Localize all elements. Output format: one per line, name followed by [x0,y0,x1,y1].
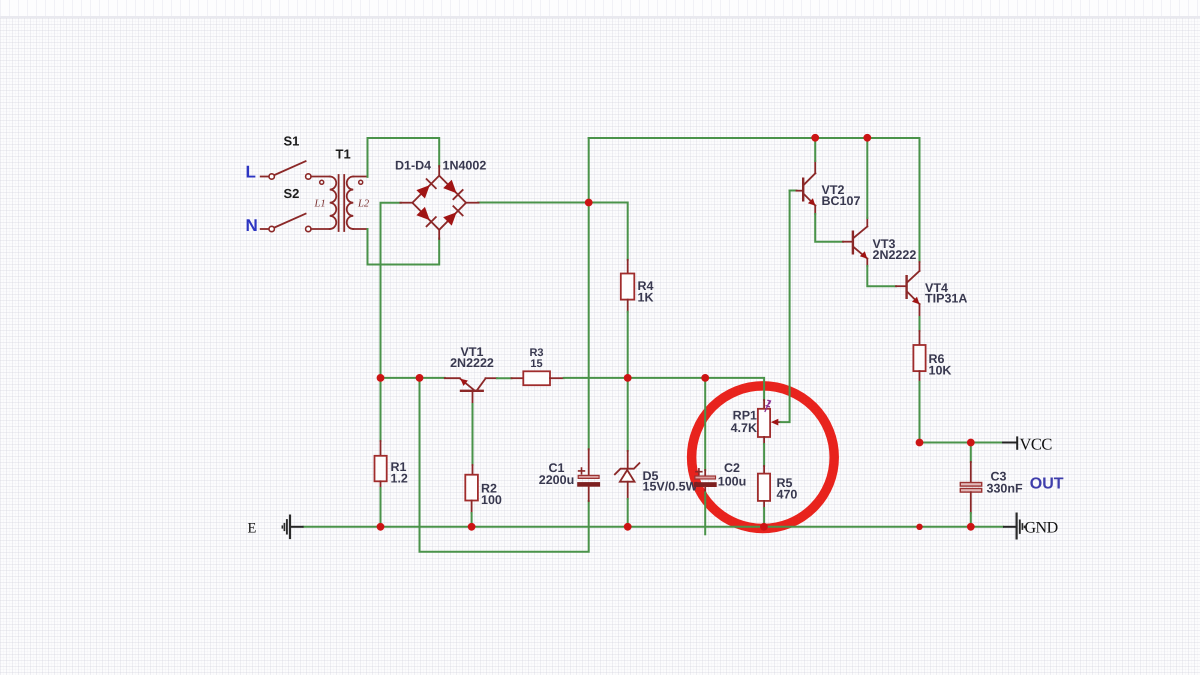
junction R4/D5 [624,374,632,382]
svg-text:330nF: 330nF [987,482,1023,496]
capacitor C2 [694,378,717,534]
svg-text:S1: S1 [284,133,300,148]
svg-text:TIP31A: TIP31A [925,292,967,306]
svg-text:1K: 1K [638,291,654,305]
svg-text:N: N [246,216,258,235]
svg-text:L: L [246,163,256,182]
junction VT3 collector [863,134,871,142]
svg-text:15: 15 [530,358,542,370]
wire RP1 wiper to VT2 base column [781,191,790,423]
junction bridge output [585,199,593,207]
svg-text:D1-D4: D1-D4 [395,159,431,173]
wire secondary bottom loop to bridge bottom [368,229,440,265]
zener diode D5 [615,378,640,527]
diode D3 (upper-right, T to R) [443,179,463,199]
junction R1 bottom [377,523,385,531]
junction C3 bottom [967,523,975,531]
wire bridge left vertex down to node row [381,203,401,378]
wire VT3 collector up [866,138,868,218]
junction C3 top [967,439,975,447]
resistor R3 [512,371,564,385]
svg-text:470: 470 [777,488,798,502]
bridge rectifier D1-D4 [400,166,478,239]
svg-text:L1: L1 [314,199,326,210]
switch S1 [261,161,330,179]
svg-text:10K: 10K [929,364,952,378]
wire loop down to C1 bottom [420,378,589,552]
svg-text:T1: T1 [336,146,351,161]
wire top rail from C1 rail to VT4 collector [589,138,920,262]
node row wire right [564,378,764,400]
diode D4 (lower-right, B to R) [443,206,463,226]
resistor R1 [375,378,387,527]
wire C1 rail vertical [588,138,590,449]
svg-text:2N2222: 2N2222 [450,356,494,370]
svg-text:L2: L2 [357,199,370,210]
VCC pin tick [1016,436,1018,449]
resistor R4 [621,260,635,312]
junction R1 top [377,374,385,382]
svg-text:2N2222: 2N2222 [873,248,917,262]
transistor VT1 [445,378,497,404]
svg-text:4.7K: 4.7K [731,421,757,435]
svg-text:100: 100 [481,493,502,507]
wire VT2 base [790,190,797,192]
wire VT2 emitter to VT3 base [815,214,843,242]
ground symbol GND [1003,513,1025,540]
capacitor C1 [577,449,600,501]
junction R6 bottom [916,439,924,447]
svg-text:E: E [248,521,257,537]
wire R4 bottom to node row [627,312,629,378]
svg-text:OUT: OUT [1030,476,1064,493]
resistor R2 [465,465,478,527]
wire VT4 emitter to R6 [919,317,921,331]
transformer T1 [320,175,368,231]
svg-text:100u: 100u [718,475,747,489]
diode D2 (upper-left, L to T) [416,179,436,199]
capacitor C3 [960,443,981,527]
wire VT2 collector up [814,138,816,161]
switch S2 [261,214,330,232]
VCC pin wire [1002,442,1017,444]
ground rail [304,526,1003,528]
wire bridge right vertex to junction [478,202,589,204]
transistor VT3 [843,218,867,266]
diode D1 (lower-left, L to B) [416,206,436,226]
svg-text:GND: GND [1025,520,1058,537]
svg-text:S2: S2 [284,186,300,201]
wire VT1 collector to R3 [497,377,512,379]
junction VT2 collector [811,134,819,142]
junction C2 top [701,374,709,382]
node row wire left [381,377,445,379]
junction D5 bottom [624,523,632,531]
VCC rail [920,442,1003,444]
svg-text:1.2: 1.2 [391,472,408,486]
wire VT1 base to R2 [472,404,474,465]
svg-text:15V/0.5W: 15V/0.5W [643,480,698,494]
highlight circle annotation [692,386,835,529]
transistor VT2 [797,161,816,214]
potentiometer RP1 [758,400,781,444]
svg-text:BC107: BC107 [822,194,861,208]
wire VT3 emitter to VT4 base [867,266,896,286]
resistor R5 [758,466,770,527]
wire secondary top to bridge top [368,138,440,177]
wire RP1 to R5 [763,444,765,466]
svg-text:1N4002: 1N4002 [443,159,487,173]
earth symbol E [282,515,303,540]
wire jog to R4 column [589,203,628,260]
svg-text:VCC: VCC [1020,435,1053,454]
junction R2 bottom [468,523,476,531]
transistor VT4 [896,262,920,317]
junction loop top [416,374,424,382]
svg-text:C2: C2 [724,461,740,475]
svg-text:2200u: 2200u [539,473,574,487]
resistor R6 [913,331,925,443]
junction rail [916,524,922,530]
junction R5 bottom [760,523,768,531]
